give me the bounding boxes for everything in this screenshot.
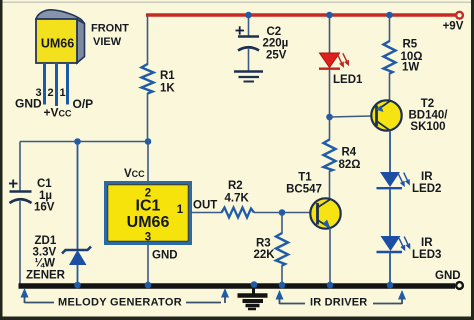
svg-text:LED3: LED3	[412, 249, 441, 261]
resistor R5	[384, 39, 423, 74]
svg-text:R1: R1	[160, 70, 175, 82]
capacitor C2	[236, 26, 289, 62]
svg-text:IR: IR	[421, 237, 433, 249]
wire IC1 OUT pin1	[191, 212, 223, 214]
svg-text:T2: T2	[421, 98, 434, 110]
svg-text:R3: R3	[256, 238, 271, 250]
node junction LED1 on rail	[326, 12, 333, 19]
resistor R4	[324, 140, 361, 172]
wire R1 branch from +9V rail	[147, 15, 149, 65]
wire R1 to Vcc node	[147, 93, 149, 142]
wire C1 to ground rail	[19, 201, 21, 284]
wire R4 to T1 collector	[329, 171, 331, 201]
svg-text:BD140/: BD140/	[409, 110, 449, 122]
wire R5 branch from rail	[389, 15, 391, 42]
svg-text:1K: 1K	[160, 83, 175, 95]
node junction ZD1 on rail	[74, 282, 81, 289]
resistor R1	[142, 64, 176, 95]
svg-text:OUT: OUT	[193, 200, 217, 212]
wire R4 branch	[329, 117, 331, 141]
wire ZD1 branch	[77, 142, 79, 251]
svg-text:2: 2	[47, 87, 53, 99]
UM66 package front view illustration	[36, 10, 85, 63]
wire T2 base	[330, 116, 372, 117]
wire ground rail	[19, 283, 456, 289]
svg-text:1: 1	[177, 204, 184, 216]
wire IC1 GND pin3	[147, 244, 149, 285]
svg-text:VCC: VCC	[124, 168, 145, 180]
wire IC1 Vcc pin2	[147, 142, 149, 183]
node junction LED3 on rail	[387, 282, 394, 289]
LED LED3 infrared	[377, 236, 442, 261]
transistor T1 BC547	[286, 172, 341, 229]
wire +9V red rail	[146, 13, 456, 16]
svg-text:R5: R5	[403, 39, 418, 51]
wire T1 emitter to ground rail	[329, 228, 331, 284]
capacitor C1	[9, 178, 55, 214]
svg-text:VIEW: VIEW	[93, 36, 122, 48]
UM66 pin labels GND +Vcc O/P	[15, 97, 93, 120]
svg-text:IR: IR	[421, 171, 433, 183]
wire C1 branch	[19, 142, 21, 192]
svg-text:UM66: UM66	[41, 37, 74, 51]
svg-text:+VCC: +VCC	[44, 106, 73, 120]
svg-text:C2: C2	[267, 26, 282, 38]
node T2 base junction	[326, 114, 333, 121]
svg-text:22K: 22K	[254, 249, 276, 261]
svg-text:R2: R2	[228, 180, 243, 192]
svg-text:ZENER: ZENER	[26, 270, 66, 282]
svg-text:T1: T1	[298, 172, 312, 184]
node junction C2 on rail	[245, 12, 252, 19]
node junction R5 on rail	[386, 12, 393, 19]
svg-text:IC1: IC1	[136, 198, 161, 215]
transistor T2 BD140/SK100	[371, 98, 448, 133]
svg-text:4.7K: 4.7K	[225, 193, 250, 205]
node junction chassis ground on rail	[251, 281, 258, 288]
ground chassis symbol bottom center	[238, 287, 268, 309]
svg-text:LED2: LED2	[412, 183, 441, 195]
wire T2 collector to LED2	[389, 131, 391, 173]
node Vcc junction	[145, 138, 152, 145]
node ZD1 junction	[74, 138, 81, 145]
svg-text:MELODY GENERATOR: MELODY GENERATOR	[58, 297, 182, 309]
svg-text:GND: GND	[15, 97, 42, 111]
wire ZD1 to ground rail	[77, 265, 79, 284]
svg-text:220µ: 220µ	[263, 38, 289, 50]
svg-text:25V: 25V	[266, 50, 287, 62]
UM66 pin numbers 3 2 1	[35, 87, 65, 99]
terminal GND	[435, 270, 463, 289]
wire Vcc node horizontal	[20, 141, 148, 143]
svg-text:3: 3	[145, 232, 151, 244]
wire LED2 to LED3	[389, 188, 391, 236]
op-amp IC1 UM66 box	[106, 183, 191, 244]
label MELODY GENERATOR bracket	[21, 288, 230, 309]
svg-text:BC547: BC547	[286, 184, 322, 196]
svg-text:GND: GND	[435, 270, 461, 282]
wire LED3 to ground rail	[389, 252, 391, 284]
node junction T1 emitter on rail	[327, 282, 334, 289]
svg-text:1µ: 1µ	[39, 190, 52, 202]
wire C2 to earth ground	[248, 48, 250, 72]
capacitor C2 branch wire	[248, 15, 250, 37]
resistor R2	[222, 180, 255, 218]
ground earth symbol under C2	[234, 72, 263, 82]
LED LED1	[319, 53, 363, 86]
svg-text:16V: 16V	[34, 202, 55, 214]
svg-text:82Ω: 82Ω	[339, 159, 361, 171]
zener diode ZD1	[26, 235, 91, 282]
svg-text:O/P: O/P	[73, 97, 94, 111]
label IR DRIVER bracket	[276, 290, 407, 309]
svg-text:C1: C1	[37, 178, 52, 190]
svg-text:1: 1	[59, 87, 65, 99]
wire R5 to T2 emitter	[389, 73, 391, 101]
node junction R3 on rail	[279, 282, 286, 289]
wire LED1 to T2 base node	[329, 69, 331, 117]
label FRONT VIEW	[91, 23, 129, 49]
terminal +9V	[443, 12, 464, 33]
wire R3 to ground rail	[281, 265, 283, 284]
svg-text:+9V: +9V	[443, 21, 464, 33]
svg-text:¼W: ¼W	[35, 258, 56, 270]
node R3 junction	[279, 209, 286, 216]
svg-text:IR DRIVER: IR DRIVER	[310, 297, 367, 309]
UM66 pin legs	[45, 63, 68, 106]
resistor R3	[254, 233, 289, 266]
svg-text:ZD1: ZD1	[35, 235, 57, 247]
svg-text:1W: 1W	[402, 62, 419, 74]
LED LED2 infrared	[377, 171, 442, 195]
svg-text:SK100: SK100	[410, 121, 445, 133]
node junction IC1 GND on rail	[145, 282, 152, 289]
svg-text:GND: GND	[152, 250, 178, 262]
svg-text:FRONT: FRONT	[91, 23, 129, 35]
svg-text:UM66: UM66	[127, 214, 170, 231]
svg-text:R4: R4	[342, 147, 357, 159]
wire R3 branch	[281, 213, 283, 234]
wire R2 to T1 base	[254, 212, 311, 214]
svg-text:LED1: LED1	[333, 74, 363, 86]
wire LED1 branch from rail	[329, 15, 331, 53]
